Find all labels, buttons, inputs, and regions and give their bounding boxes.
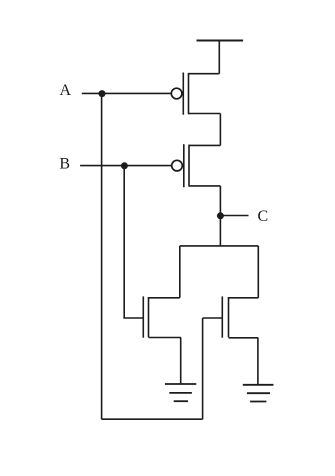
wire VDD rail to Q1 drain: [218, 41, 220, 74]
transistor Q1 PMOS (gate A) drain lead: [189, 73, 220, 75]
VDD power rail: [197, 40, 244, 42]
transistor Q4 NMOS channel bar: [228, 297, 230, 337]
transistor Q2 PMOS channel bar: [188, 145, 190, 187]
wire A to Q1 gate: [82, 92, 171, 94]
ground GND1: [165, 384, 196, 401]
wire Q4 source to ground: [257, 338, 259, 385]
transistor Q3 NMOS (gate B) drain lead: [149, 297, 180, 299]
transistor Q3 NMOS gate lead: [123, 317, 143, 319]
transistor Q3 NMOS source lead: [149, 337, 182, 339]
transistor Q1 PMOS channel bar: [188, 73, 190, 114]
wire Q2 source down to node C and NMOS rail: [219, 186, 221, 246]
transistor Q4 NMOS gate lead: [203, 317, 223, 319]
svg-text:B: B: [59, 156, 70, 173]
wire B vertical down to Q3 gate: [123, 166, 125, 318]
wire rail to Q4 drain: [257, 246, 259, 298]
svg-text:A: A: [60, 82, 72, 99]
wire node C stub: [220, 215, 248, 217]
wire A vertical down to bottom: [101, 93, 103, 419]
wire Q1 source to Q2 drain: [219, 114, 221, 146]
transistor Q1 PMOS gate bar: [182, 73, 184, 115]
junction dot node A: [99, 90, 106, 97]
transistor Q4 NMOS (gate A) drain lead: [229, 297, 259, 299]
wire Q3 source to ground: [180, 338, 182, 385]
transistor Q2 PMOS source lead: [189, 185, 220, 187]
junction dot node C: [217, 212, 224, 219]
transistor Q4 NMOS gate bar: [221, 296, 223, 337]
wire bottom horizontal: [102, 418, 203, 420]
transistor Q2 PMOS (gate B) drain lead: [189, 144, 220, 146]
wire B to Q2 gate: [80, 165, 171, 167]
junction dot node B: [121, 162, 128, 169]
wire rail to Q3 drain: [179, 246, 181, 298]
transistor Q1 PMOS source lead: [189, 113, 221, 115]
wire A line to Q4 gate: vertical riser: [202, 318, 204, 419]
svg-text:C: C: [258, 208, 269, 225]
transistor Q3 NMOS channel bar: [148, 297, 150, 337]
transistor Q2 PMOS gate bar: [183, 144, 185, 187]
transistor Q1 PMOS gate bubble: [171, 88, 182, 99]
ground GND2: [243, 385, 274, 402]
transistor Q3 NMOS gate bar: [142, 296, 144, 337]
wire NMOS drain rail: [180, 245, 258, 247]
transistor Q2 PMOS gate bubble: [172, 160, 183, 171]
transistor Q4 NMOS source lead: [229, 337, 259, 339]
